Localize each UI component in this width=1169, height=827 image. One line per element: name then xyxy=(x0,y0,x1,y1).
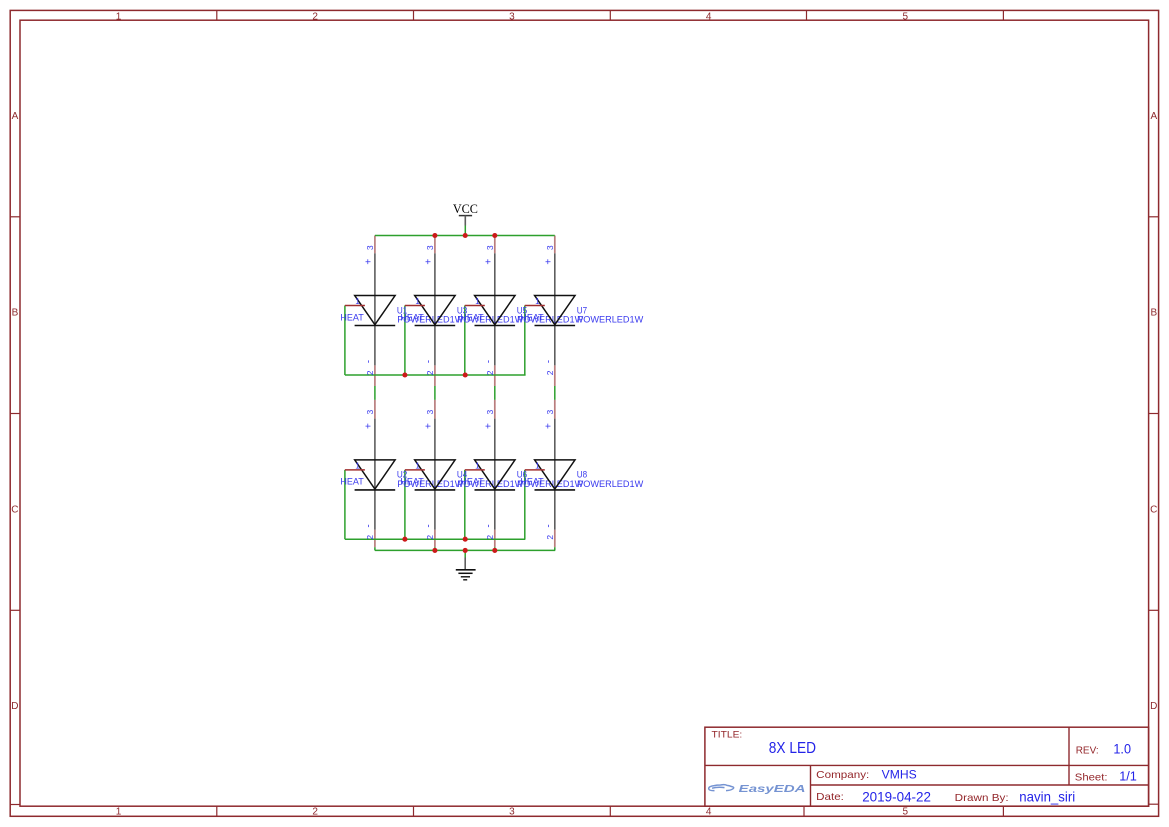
svg-text:2: 2 xyxy=(312,12,318,23)
svg-text:3: 3 xyxy=(365,409,375,414)
svg-text:2: 2 xyxy=(312,807,318,818)
svg-text:Drawn By:: Drawn By: xyxy=(955,792,1009,804)
svg-text:1: 1 xyxy=(415,296,420,306)
svg-text:+: + xyxy=(424,259,435,265)
svg-text:HEAT: HEAT xyxy=(340,477,364,487)
svg-text:+: + xyxy=(424,423,435,429)
svg-text:+: + xyxy=(484,423,495,429)
svg-text:2: 2 xyxy=(365,535,375,540)
svg-text:HEAT: HEAT xyxy=(400,477,424,487)
svg-text:-: - xyxy=(484,360,495,363)
svg-text:HEAT: HEAT xyxy=(340,312,364,322)
svg-text:3: 3 xyxy=(509,12,515,23)
svg-text:+: + xyxy=(364,423,375,429)
svg-text:3: 3 xyxy=(365,245,375,250)
svg-text:1: 1 xyxy=(475,460,480,470)
svg-text:1/1: 1/1 xyxy=(1119,769,1137,784)
svg-text:1: 1 xyxy=(116,807,122,818)
svg-text:2: 2 xyxy=(425,370,435,375)
svg-text:3: 3 xyxy=(485,409,495,414)
svg-text:4: 4 xyxy=(706,12,712,23)
svg-text:+: + xyxy=(484,259,495,265)
svg-text:2: 2 xyxy=(545,535,555,540)
svg-text:HEAT: HEAT xyxy=(460,477,484,487)
svg-text:2: 2 xyxy=(545,370,555,375)
svg-text:POWERLED1W: POWERLED1W xyxy=(577,315,644,325)
svg-text:HEAT: HEAT xyxy=(520,312,544,322)
svg-text:A: A xyxy=(12,111,19,122)
svg-text:2019-04-22: 2019-04-22 xyxy=(862,790,931,805)
svg-text:B: B xyxy=(1150,308,1157,319)
svg-text:POWERLED1W: POWERLED1W xyxy=(577,479,644,489)
svg-text:C: C xyxy=(11,504,18,515)
svg-text:+: + xyxy=(364,259,375,265)
svg-text:1.0: 1.0 xyxy=(1113,741,1131,756)
svg-text:-: - xyxy=(424,524,435,527)
svg-text:1: 1 xyxy=(355,296,360,306)
svg-text:5: 5 xyxy=(903,807,909,818)
svg-text:VMHS: VMHS xyxy=(882,768,917,782)
svg-text:1: 1 xyxy=(535,460,540,470)
svg-text:TITLE:: TITLE: xyxy=(712,730,743,740)
svg-text:3: 3 xyxy=(425,409,435,414)
svg-text:3: 3 xyxy=(425,245,435,250)
svg-text:-: - xyxy=(424,360,435,363)
svg-text:1: 1 xyxy=(475,296,480,306)
svg-text:3: 3 xyxy=(485,245,495,250)
svg-text:D: D xyxy=(1150,701,1157,712)
svg-text:1: 1 xyxy=(535,296,540,306)
svg-text:-: - xyxy=(544,360,555,363)
svg-text:Company:: Company: xyxy=(816,769,869,781)
svg-text:2: 2 xyxy=(485,535,495,540)
svg-text:HEAT: HEAT xyxy=(460,312,484,322)
svg-text:4: 4 xyxy=(706,807,712,818)
svg-text:navin_siri: navin_siri xyxy=(1019,788,1075,804)
svg-text:D: D xyxy=(11,701,18,712)
svg-text:+: + xyxy=(544,423,555,429)
svg-text:-: - xyxy=(484,524,495,527)
svg-text:2: 2 xyxy=(425,535,435,540)
svg-text:3: 3 xyxy=(509,807,515,818)
svg-text:VCC: VCC xyxy=(453,202,478,216)
svg-text:2: 2 xyxy=(485,370,495,375)
svg-text:3: 3 xyxy=(545,409,555,414)
svg-text:+: + xyxy=(544,259,555,265)
svg-text:2: 2 xyxy=(365,370,375,375)
svg-text:C: C xyxy=(1150,504,1157,515)
svg-text:-: - xyxy=(544,524,555,527)
svg-text:B: B xyxy=(12,308,19,319)
svg-text:1: 1 xyxy=(355,460,360,470)
svg-text:REV:: REV: xyxy=(1076,744,1099,756)
svg-text:1: 1 xyxy=(415,460,420,470)
svg-text:3: 3 xyxy=(545,245,555,250)
svg-text:Sheet:: Sheet: xyxy=(1075,772,1108,784)
svg-text:A: A xyxy=(1150,111,1157,122)
svg-text:1: 1 xyxy=(116,12,122,23)
svg-text:EasyEDA: EasyEDA xyxy=(739,783,806,795)
svg-text:HEAT: HEAT xyxy=(400,312,424,322)
svg-text:-: - xyxy=(364,524,375,527)
svg-text:8X LED: 8X LED xyxy=(769,740,816,757)
svg-text:Date:: Date: xyxy=(816,791,844,803)
svg-text:5: 5 xyxy=(903,12,909,23)
svg-text:HEAT: HEAT xyxy=(520,477,544,487)
svg-text:-: - xyxy=(364,360,375,363)
